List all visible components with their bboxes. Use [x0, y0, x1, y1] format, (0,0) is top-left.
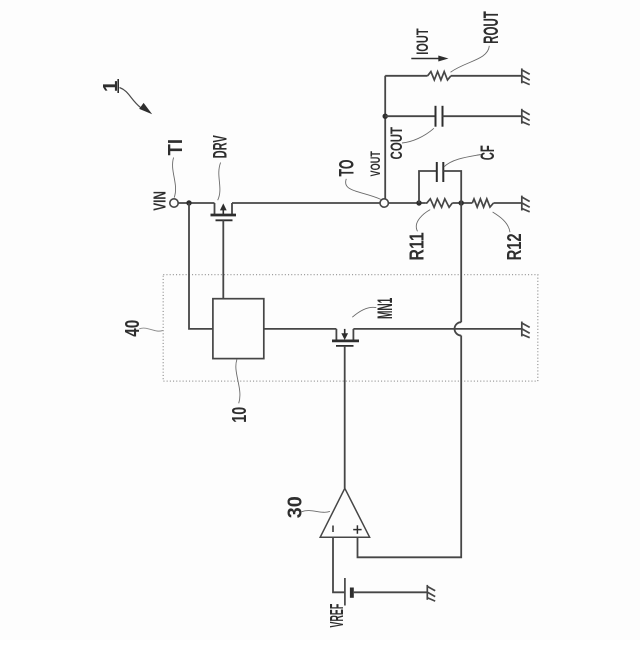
leader ROUT [451, 46, 490, 72]
dashed block 40 [163, 275, 538, 382]
svg-text:CF: CF [478, 145, 499, 160]
svg-text:10: 10 [229, 407, 251, 423]
leader COUT [402, 128, 434, 143]
leader DRV [218, 163, 221, 201]
svg-text:R12: R12 [504, 233, 526, 260]
leader 40 [139, 328, 163, 331]
leader MN1 [352, 307, 376, 317]
transistor MN1 [332, 329, 359, 346]
svg-text:TI: TI [165, 139, 187, 156]
ground R12 [522, 196, 530, 212]
svg-text:ROUT: ROUT [480, 11, 503, 44]
wire MN1 source to ground [353, 328, 521, 330]
wire main rail left [178, 202, 214, 204]
wire main rail right of DRV [232, 202, 380, 204]
capacitor CF loop [419, 162, 461, 203]
wire MN1 gate down to op-amp [344, 346, 346, 488]
block 10 [213, 299, 264, 359]
wire VREF to ground [354, 591, 428, 593]
svg-text:IOUT: IOUT [413, 28, 432, 55]
svg-text:VIN: VIN [150, 191, 170, 211]
wire feedback from R11/R12 node down to op-amp plus [358, 203, 462, 557]
battery VREF [345, 578, 354, 606]
terminal TI (VIN input circle) [170, 199, 178, 207]
svg-text:MN1: MN1 [374, 298, 397, 319]
arrow for figure number 1 [120, 88, 153, 115]
node junction COUT branch [383, 114, 388, 119]
leader TO [346, 179, 381, 200]
wire op-amp minus down to VREF [333, 537, 345, 592]
figure number 1 [99, 79, 122, 93]
svg-text:R11: R11 [407, 232, 429, 260]
svg-text:DRV: DRV [211, 135, 232, 158]
svg-text:TO: TO [336, 160, 359, 177]
resistor R12 [472, 199, 493, 207]
node junction CF right / feedback [459, 200, 464, 205]
svg-text:VREF: VREF [326, 604, 347, 628]
current arrow IOUT [411, 56, 448, 62]
wire VOUT riser [384, 76, 386, 199]
wire ROUT line [385, 75, 427, 77]
wire VIN branch down to block 10 [189, 203, 213, 329]
resistor R11 [425, 199, 452, 208]
wire block 10 to MN1 [264, 328, 337, 330]
ground ROUT [522, 68, 530, 84]
node junction CF left [416, 200, 421, 205]
resistor ROUT [428, 72, 451, 80]
ground VREF [427, 585, 435, 601]
svg-text:30: 30 [285, 496, 307, 518]
wire DRV gate down to block 10 [222, 220, 224, 298]
leader R12 [493, 212, 510, 232]
wire main rail to R11 [388, 202, 425, 204]
ground MN1 [522, 322, 530, 338]
leader R11 [416, 210, 430, 232]
svg-text:VOUT: VOUT [368, 151, 383, 177]
leader CF [444, 155, 481, 168]
op-amp 30 [320, 488, 369, 537]
node junction VIN branch [186, 200, 191, 205]
capacitor COUT [436, 106, 443, 127]
terminal TO (VOUT output circle) [380, 199, 388, 207]
leader 30 [302, 511, 330, 513]
wire COUT line left [385, 115, 435, 117]
leader 10 [236, 360, 240, 404]
leader TI [173, 158, 176, 198]
ground COUT [522, 109, 530, 125]
transistor DRV [211, 203, 237, 220]
